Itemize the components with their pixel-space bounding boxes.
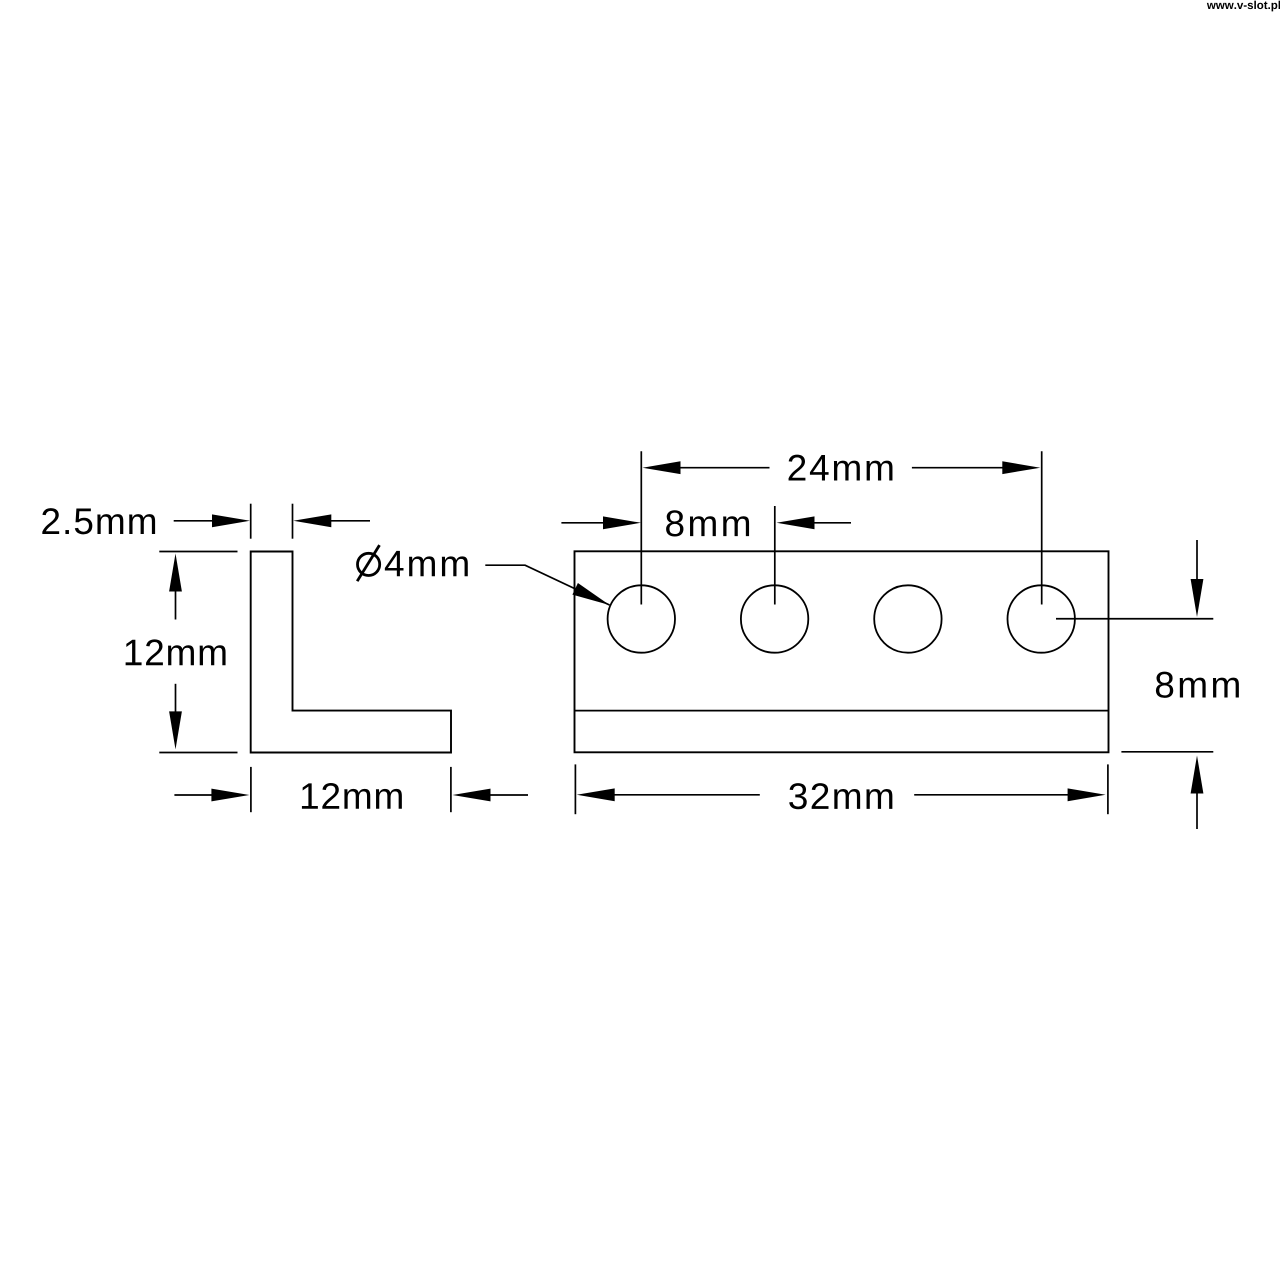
hole 4 <box>1007 585 1074 652</box>
hole 3 <box>874 585 941 652</box>
leader line to hole 1 <box>485 565 609 605</box>
dimension 24mm: dimension line with arrows <box>677 467 1006 469</box>
dimension 12mm vertical: value label <box>126 639 226 665</box>
dimension 8mm right: extension lines <box>1056 619 1213 752</box>
dimension 12mm vertical: extension lines <box>159 552 237 753</box>
dimension 8mm: value label <box>666 510 749 536</box>
watermark www.v-slot.pl <box>1207 1 1280 12</box>
hole 2 <box>741 585 808 652</box>
hole diameter symbol <box>358 553 380 575</box>
dimension 32mm: dimension line with arrows <box>611 794 1072 796</box>
dimension 2.5mm: right arrow line <box>328 520 370 522</box>
dimension 8mm right: value label <box>1156 672 1239 698</box>
dimension 8mm: extension line from hole 2 center <box>774 506 776 605</box>
dimension 8mm: arrow lines <box>561 522 851 524</box>
dimension 12mm vertical: dimension line with arrows <box>175 587 177 716</box>
dimension 12mm horizontal: value label <box>302 783 402 809</box>
dimension 24mm: extension lines from hole centers <box>641 451 1041 604</box>
hole diameter label 4mm <box>385 551 468 576</box>
dimension 32mm: extension ticks <box>575 764 1108 814</box>
hole 1 <box>608 585 675 652</box>
dimension 2.5mm: left arrow line <box>174 520 216 522</box>
front view plate outline <box>575 551 1109 752</box>
dimension 12mm horizontal: arrow lines <box>174 794 528 796</box>
dimension 12mm horizontal: extension ticks <box>251 767 451 812</box>
dimension 24mm: value label <box>789 455 893 481</box>
dimension 8mm right: dimension lines with arrows <box>1196 540 1198 829</box>
dimension 32mm: value label <box>789 783 892 809</box>
dimension 2.5mm: extension ticks <box>251 504 293 539</box>
fold line <box>575 710 1109 712</box>
L-profile side view outline <box>251 552 451 753</box>
dimension 2.5mm: value label <box>42 508 155 534</box>
